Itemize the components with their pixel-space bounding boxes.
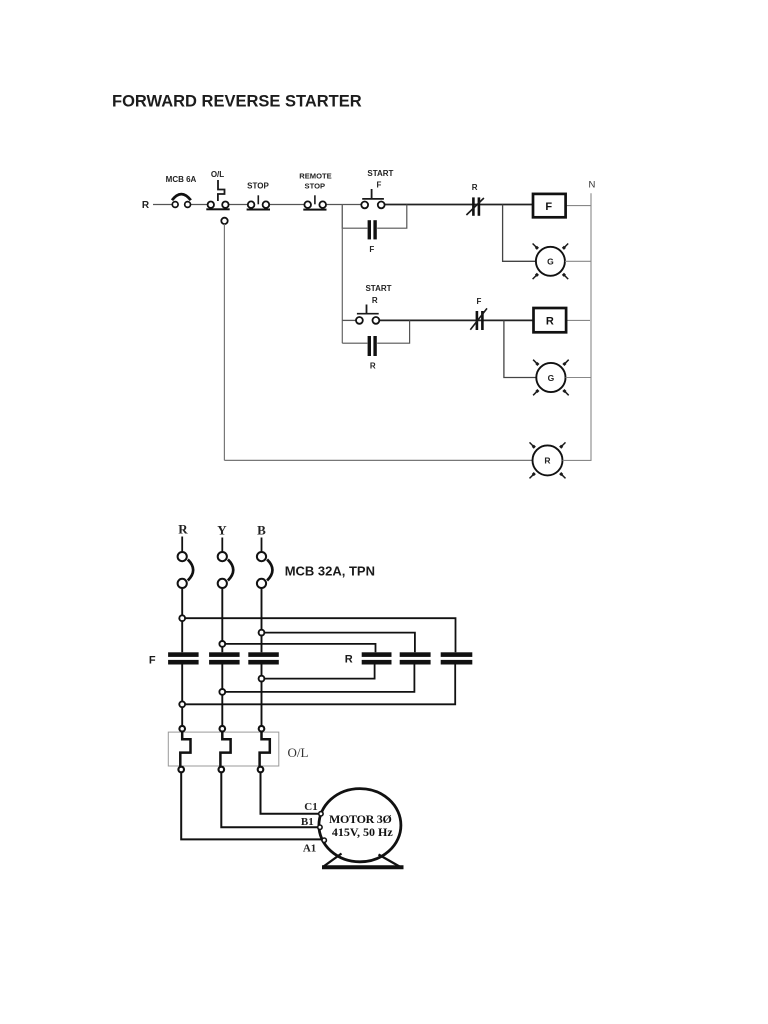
svg-text:R: R	[546, 315, 554, 327]
svg-text:G: G	[548, 373, 555, 383]
svg-text:B1: B1	[301, 816, 314, 828]
svg-text:R: R	[370, 361, 376, 370]
svg-text:A1: A1	[303, 843, 316, 855]
svg-text:O/L: O/L	[288, 745, 309, 760]
svg-text:G: G	[547, 257, 554, 267]
svg-text:MCB 6A: MCB 6A	[166, 175, 197, 184]
svg-text:START: START	[365, 284, 391, 293]
svg-text:415V, 50 Hz: 415V, 50 Hz	[332, 825, 393, 839]
svg-text:Y: Y	[217, 523, 227, 538]
svg-text:STOP: STOP	[305, 181, 326, 190]
svg-text:STOP: STOP	[247, 181, 269, 190]
svg-text:F: F	[377, 180, 382, 189]
svg-text:MCB 32A, TPN: MCB 32A, TPN	[285, 564, 375, 579]
svg-text:R: R	[472, 183, 478, 192]
svg-text:R: R	[142, 200, 150, 211]
svg-text:B: B	[257, 523, 266, 538]
svg-text:MOTOR 3Ø: MOTOR 3Ø	[329, 812, 392, 826]
svg-text:O/L: O/L	[211, 170, 224, 179]
svg-text:R: R	[178, 522, 188, 537]
svg-text:REMOTE: REMOTE	[299, 172, 332, 181]
svg-text:FORWARD REVERSE STARTER: FORWARD REVERSE STARTER	[112, 93, 362, 111]
svg-text:N: N	[588, 180, 595, 191]
svg-text:R: R	[372, 296, 378, 305]
svg-text:START: START	[367, 169, 393, 178]
svg-text:F: F	[149, 655, 156, 667]
svg-text:F: F	[369, 245, 374, 254]
svg-text:F: F	[477, 297, 482, 306]
svg-text:R: R	[345, 654, 353, 666]
svg-text:C1: C1	[304, 801, 317, 813]
svg-text:R: R	[544, 456, 550, 466]
svg-text:F: F	[545, 201, 552, 213]
